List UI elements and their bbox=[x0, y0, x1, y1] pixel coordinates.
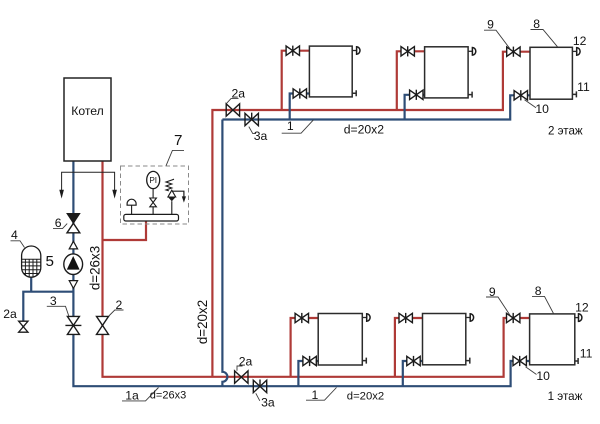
svg-text:9: 9 bbox=[487, 18, 494, 32]
svg-text:2 этаж: 2 этаж bbox=[548, 125, 583, 138]
svg-text:PI: PI bbox=[149, 176, 157, 185]
drain valve 2a (left) bbox=[19, 321, 28, 332]
valve 3a (1st floor, on blue main, with stem) bbox=[253, 380, 266, 393]
label 10 (1st floor) bbox=[526, 367, 551, 383]
radiator valve (1st floor rad 2 bottom) bbox=[407, 356, 420, 366]
radiator valve (1st floor rad 1 top) bbox=[295, 313, 308, 323]
air vent 12 on radiator 1 (2nd floor) bbox=[352, 47, 360, 55]
plug 11 on radiator 1 (2nd floor) bbox=[352, 90, 356, 96]
pump union lower bbox=[69, 281, 77, 289]
label 9 (1st floor) bbox=[486, 285, 510, 315]
boiler Котел bbox=[64, 78, 111, 161]
svg-text:3a: 3a bbox=[254, 129, 268, 143]
svg-text:d=26x3: d=26x3 bbox=[87, 246, 102, 290]
wire: red tap to 2nd floor radiator 2 top valve bbox=[397, 51, 425, 110]
radiator 3 / 8 (2nd floor) bbox=[530, 47, 572, 99]
label 1 (1st floor) bbox=[306, 388, 337, 402]
radiator valve (2nd floor rad 2 bottom) bbox=[410, 90, 423, 100]
svg-text:d=20x2: d=20x2 bbox=[347, 391, 384, 403]
radiator 1 (1st floor) bbox=[318, 314, 362, 366]
air vent on radiator 2 (1st floor) bbox=[466, 314, 474, 322]
radiator valve 9 (2nd floor rad 3 top) bbox=[507, 47, 520, 57]
gauge valve bbox=[150, 198, 157, 214]
plug on radiator 1 (1st floor) bbox=[362, 358, 366, 364]
svg-text:d=26x3: d=26x3 bbox=[150, 389, 186, 401]
plug 11 on radiator 3 (1st floor) bbox=[575, 358, 578, 364]
radiator valve (1st floor rad 2 top) bbox=[399, 313, 412, 323]
svg-text:1 этаж: 1 этаж bbox=[548, 390, 583, 403]
wire: blue expansion tank line and drain stub bbox=[23, 277, 73, 332]
wire: blue stub 2nd floor radiator 1 bottom bbox=[290, 94, 310, 120]
svg-text:8: 8 bbox=[533, 17, 540, 31]
wire: blue boiler down-pipe through pump column + return main + elbow to radiator 3 bottom bbox=[73, 161, 529, 386]
svg-text:6: 6 bbox=[55, 216, 62, 230]
label 2a (2nd floor) bbox=[227, 86, 246, 103]
radiator 3 / 8 (1st floor) bbox=[530, 314, 575, 365]
label 2a (1st floor) bbox=[237, 354, 252, 370]
label 8 (2nd floor) bbox=[531, 17, 558, 47]
valve 2a (1st floor, on red main) bbox=[235, 371, 248, 383]
svg-text:1: 1 bbox=[312, 388, 319, 402]
label 8 (1st floor) bbox=[532, 284, 554, 313]
radiator valve 9 (1st floor rad 3 top) bbox=[507, 313, 520, 323]
svg-text:Котел: Котел bbox=[71, 104, 104, 118]
label 2 bbox=[109, 298, 124, 316]
flow direction bracket with arrows bbox=[59, 172, 117, 198]
valve 2a (2nd floor branch, on red) bbox=[226, 104, 239, 116]
svg-text:d=20x2: d=20x2 bbox=[344, 122, 385, 136]
label 3a (1st floor) bbox=[256, 393, 275, 409]
radiator 1 (2nd floor) bbox=[309, 46, 352, 97]
svg-text:3a: 3a bbox=[261, 396, 275, 410]
plug on radiator 2 (1st floor) bbox=[466, 358, 470, 364]
pressure gauge PI bbox=[147, 171, 160, 198]
svg-text:1a: 1a bbox=[125, 388, 139, 402]
plug on radiator 2 (2nd floor) bbox=[468, 92, 472, 98]
svg-text:11: 11 bbox=[580, 347, 593, 361]
plug 11 on radiator 3 (2nd floor) bbox=[572, 91, 576, 97]
wire: red tap to 1st floor radiator 2 top valve bbox=[395, 318, 423, 377]
wire: red boiler down-pipe + 1st floor supply main + riser to radiator 3 bbox=[103, 161, 530, 377]
label 3a (2nd floor) bbox=[249, 127, 268, 143]
label 1a bbox=[122, 388, 159, 403]
radiator valve (1st floor rad 1 bottom) bbox=[303, 356, 316, 366]
svg-text:5: 5 bbox=[45, 253, 53, 270]
wire: red tap to 1st floor radiator 1 top valve bbox=[291, 318, 319, 377]
svg-text:12: 12 bbox=[575, 300, 589, 314]
air vent 12 on radiator 3 (1st floor) bbox=[575, 314, 582, 322]
label 9 (2nd floor) bbox=[484, 18, 510, 49]
air vent 12 on radiator 3 (2nd floor) bbox=[572, 48, 580, 56]
radiator 2 (2nd floor) bbox=[425, 47, 469, 98]
wire: blue return riser with hop over red main bbox=[222, 120, 227, 387]
svg-text:1: 1 bbox=[287, 119, 294, 133]
radiator valve (2nd floor rad 1 bottom) bbox=[293, 88, 306, 98]
valve 3 (vertical, with stem bar) bbox=[65, 316, 81, 334]
label 4 bbox=[11, 228, 25, 247]
expansion tank 4 bbox=[21, 246, 41, 278]
wire: blue stub 1st floor radiator 1 bottom bbox=[298, 361, 318, 386]
label 3 bbox=[47, 294, 69, 316]
radiator 2 (1st floor) bbox=[423, 314, 466, 365]
air vent (mushroom) bbox=[127, 199, 136, 214]
check valve 6 bbox=[67, 214, 80, 233]
safety relief valve bbox=[166, 179, 186, 214]
svg-text:11: 11 bbox=[577, 80, 590, 94]
wire: blue 2nd floor return line + elbow to radiator 3 bottom valve bbox=[222, 95, 530, 119]
air vent on radiator 2 (2nd floor) bbox=[468, 48, 476, 56]
radiator valve 10 (1st floor rad 3 bottom) bbox=[513, 356, 526, 366]
label 1 (2nd floor) bbox=[282, 119, 314, 133]
svg-text:d=20x2: d=20x2 bbox=[195, 300, 210, 344]
radiator valve (2nd floor rad 2 top) bbox=[401, 46, 414, 56]
radiator valve (2nd floor rad 1 top) bbox=[286, 46, 299, 56]
wire: red main riser d=20x2 + 2nd floor supply line + elbow to radiator 3 bbox=[212, 52, 530, 377]
pump U1 (circulation pump 5) bbox=[64, 254, 83, 275]
safety group dashed box bbox=[121, 166, 189, 224]
radiator valve 10 (2nd floor rad 3 bottom) bbox=[514, 90, 527, 100]
svg-text:4: 4 bbox=[11, 228, 18, 242]
label 7 bbox=[166, 132, 184, 166]
wire: blue stub 2nd floor radiator 2 bottom bbox=[405, 95, 425, 120]
air vent on radiator 1 (1st floor) bbox=[362, 314, 370, 322]
svg-text:7: 7 bbox=[174, 132, 182, 149]
wire: red branch from safety group manifold to boiler pipe bbox=[103, 221, 147, 240]
svg-text:2a: 2a bbox=[3, 307, 17, 321]
svg-text:10: 10 bbox=[536, 369, 550, 383]
wire: blue stub 1st floor radiator 2 bottom bbox=[403, 361, 423, 386]
svg-text:10: 10 bbox=[535, 102, 549, 116]
wire: red tap to 2nd floor radiator 1 top valve bbox=[282, 51, 310, 110]
svg-text:12: 12 bbox=[573, 34, 587, 48]
pump union upper bbox=[69, 241, 77, 249]
label 10 (2nd floor) bbox=[525, 100, 550, 116]
manifold bar bbox=[124, 214, 179, 221]
label 6 bbox=[53, 216, 67, 230]
valve 2 (vertical) bbox=[97, 316, 109, 334]
valve 3a (2nd floor branch, on blue, with stem) bbox=[245, 113, 258, 126]
